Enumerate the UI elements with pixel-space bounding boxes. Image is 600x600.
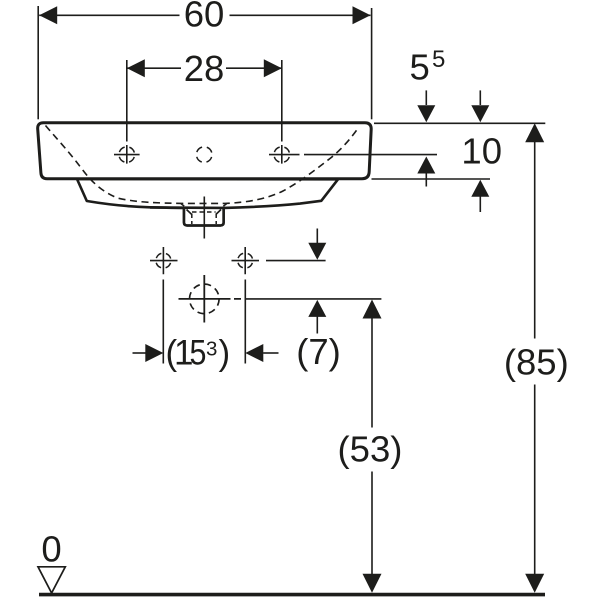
svg-text:5: 5	[410, 47, 430, 88]
svg-text:(7): (7)	[296, 331, 341, 372]
bowl interior rim (dashed)	[46, 126, 359, 204]
bulge bottom edge across trap top	[150, 206, 224, 209]
wall hole left: dashed circle	[156, 253, 171, 268]
svg-text:0: 0	[41, 528, 61, 569]
dimension 60: right extension line	[371, 8, 373, 119]
floor line	[39, 593, 545, 597]
dimension 60: left extension line	[37, 6, 39, 119]
dimension 10: lower arrow	[471, 180, 489, 197]
drain pipe hidden lines in trap	[181, 204, 227, 209]
dimension 85: line with arrows	[534, 141, 536, 576]
dimension 5.5: lower arrow	[417, 157, 435, 174]
svg-text:(85): (85)	[504, 341, 569, 382]
dimension 53: line with arrows	[371, 318, 373, 577]
reference line drain centre (y=298.9)	[245, 298, 382, 300]
svg-text:5: 5	[432, 46, 445, 73]
dimension 28: left extension line	[126, 60, 128, 142]
dimension 5.5: upper arrow	[425, 90, 427, 105]
dimension 60: dimension line	[39, 14, 370, 16]
reference line wall holes (y=260.6)	[266, 260, 326, 262]
tap hole right: dashed circle	[274, 147, 290, 163]
tap hole left: dashed circle	[119, 147, 135, 163]
trap centerline	[203, 197, 205, 239]
datum 0: triangle symbol	[38, 567, 65, 593]
tap hole centre: dashed circle	[196, 147, 212, 163]
dimension 15.3: left arrow	[133, 352, 146, 354]
dimension 28: left arrow	[127, 59, 145, 77]
dimension 15.3: left extension line	[162, 280, 164, 364]
dimension 28: right arrow	[264, 59, 282, 77]
svg-text:28: 28	[184, 48, 225, 89]
tap hole right: crosshair	[269, 145, 300, 164]
wall hole right: crosshair	[232, 247, 260, 274]
dimension 60: right arrow	[353, 6, 371, 24]
dimension 60: left arrow	[39, 6, 57, 24]
tap hole left: crosshair	[114, 145, 140, 164]
washbasin underside bulge	[77, 179, 338, 208]
dimension 28: dimension line	[127, 67, 282, 69]
svg-text:5: 5	[190, 333, 207, 372]
drain: vertical centreline	[203, 275, 205, 323]
reference line tap hole centre (y=154.6)	[304, 154, 437, 156]
svg-text:(53): (53)	[338, 428, 403, 469]
drain: horizontal centreline	[179, 298, 242, 300]
reference line basin bottom (y=179)	[372, 178, 491, 180]
dimension 7: upper arrow	[316, 229, 318, 244]
dimension 15.3: right extension line	[244, 280, 246, 364]
reference line basin top (y=123.3)	[374, 122, 545, 124]
washbasin main body	[38, 123, 372, 179]
dimension 10: upper arrow	[479, 90, 481, 105]
dimension 7: lower arrow	[308, 300, 326, 317]
svg-text:10: 10	[461, 131, 502, 172]
siphon trap box	[184, 207, 224, 226]
svg-text:): )	[219, 334, 231, 373]
drain funnel solid edges	[187, 210, 222, 215]
svg-text:60: 60	[184, 0, 225, 35]
trap box lower part redrawn over bulge	[184, 208, 224, 226]
wall hole right: dashed circle	[238, 253, 253, 268]
drain: dashed circle	[190, 284, 220, 314]
svg-text:3: 3	[206, 338, 217, 361]
wall hole left: crosshair	[150, 247, 178, 274]
dimension 28: right extension line	[281, 60, 283, 142]
dimension 15.3: right arrow	[245, 344, 263, 362]
